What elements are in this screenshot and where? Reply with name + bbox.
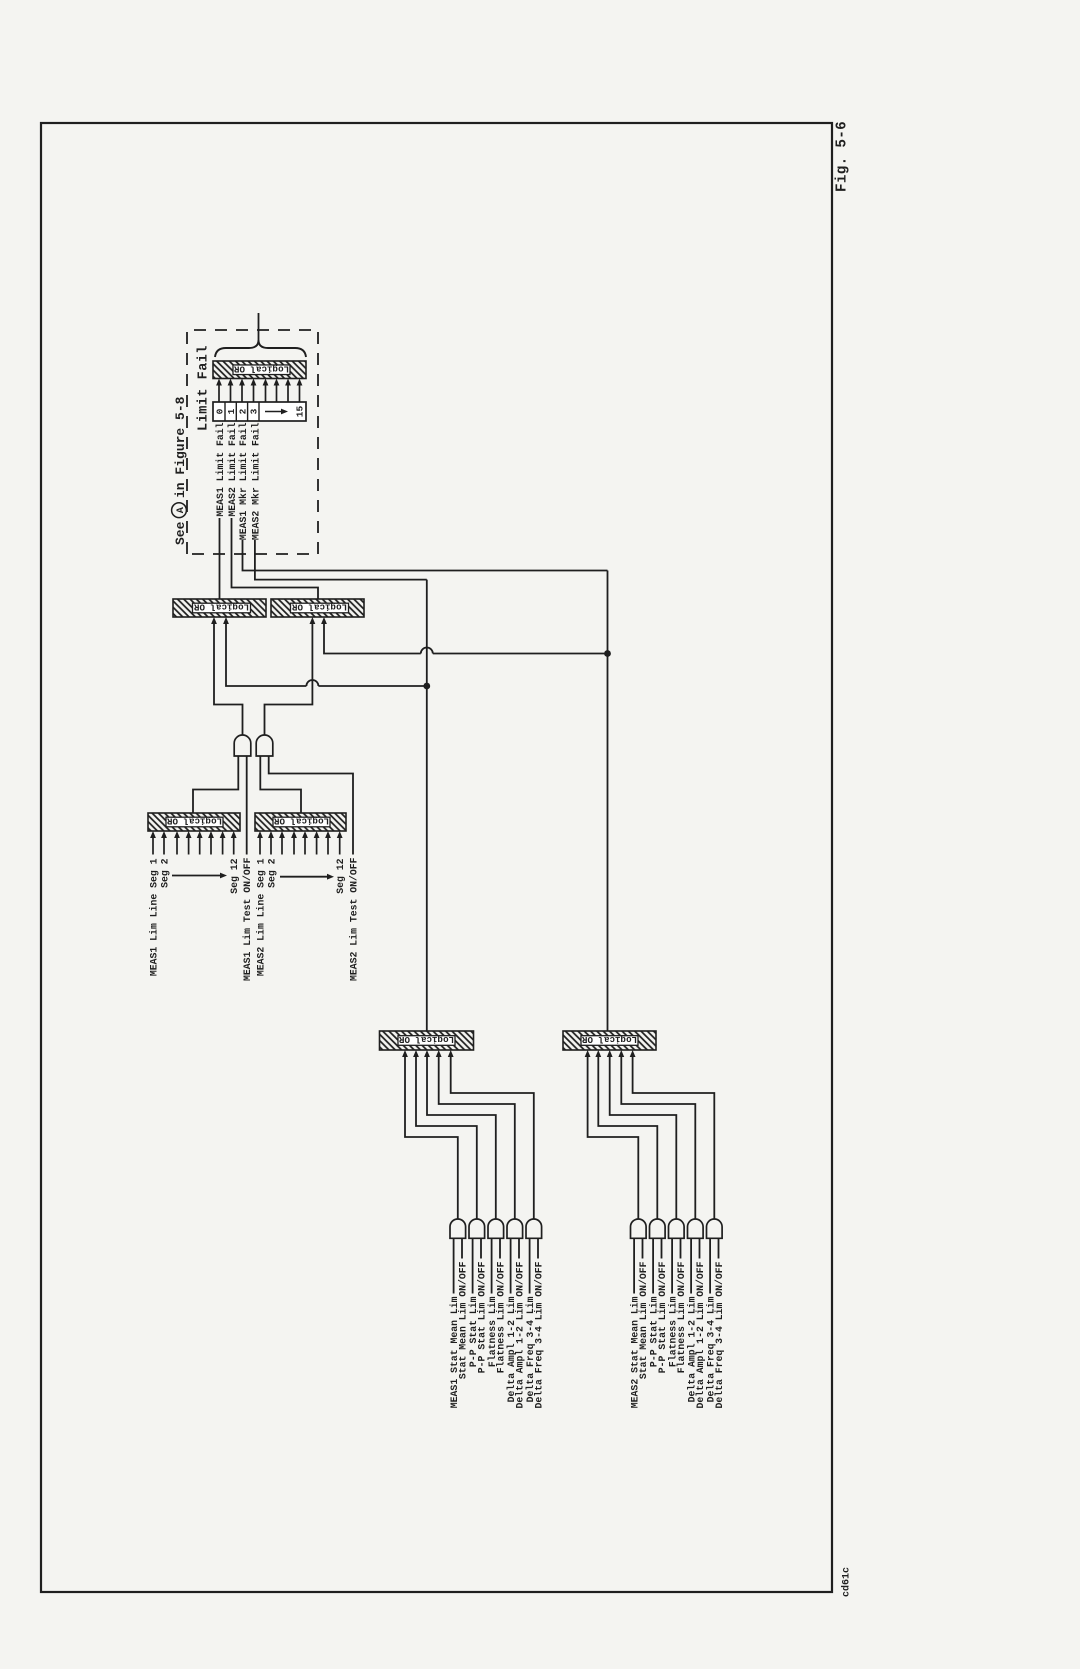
svg-text:1: 1: [226, 408, 237, 414]
dashed box (Limit Fail detail): [187, 330, 318, 554]
svg-text:3: 3: [249, 408, 260, 414]
wire: P-P Stat Lim ON/OFF: [480, 1238, 482, 1258]
svg-text:Stat Mean Lim ON/OFF: Stat Mean Lim ON/OFF: [638, 1261, 649, 1379]
wire: U6 gate 2 output staircase: [416, 1057, 477, 1219]
wire: U7 gate 2 output staircase: [598, 1057, 657, 1219]
svg-text:Stat Mean Lim ON/OFF: Stat Mean Lim ON/OFF: [458, 1261, 469, 1379]
wire: U7 gate 5 output staircase: [633, 1057, 715, 1219]
wire: Delta Ampl 1-2 Lim ON/OFF: [518, 1238, 520, 1258]
wire: Delta Freq 3-4 Lim: [529, 1238, 531, 1293]
OR block U2 (MEAS2 Lim Line segs): [255, 813, 346, 831]
wire: Flatness Lim ON/OFF: [499, 1238, 501, 1258]
wire: U7 gate 1 output staircase: [588, 1057, 639, 1219]
register 0..15 (Limit Fail bits): [213, 402, 306, 421]
svg-text:MEAS2 Limit Fail: MEAS2 Limit Fail: [227, 422, 238, 516]
svg-text:P-P Stat Lim ON/OFF: P-P Stat Lim ON/OFF: [657, 1261, 668, 1373]
node: junction to U3 input: [423, 683, 430, 690]
wire: Flatness Lim ON/OFF: [680, 1238, 682, 1258]
wire: MEAS1 Stat Mean Lim: [453, 1238, 455, 1293]
svg-text:P-P Stat Lim ON/OFF: P-P Stat Lim ON/OFF: [477, 1261, 488, 1373]
wire: U6 gate 3 output staircase: [427, 1057, 496, 1219]
wire: Delta Freq 3-4 Lim ON/OFF: [537, 1238, 539, 1258]
svg-text:A: A: [176, 506, 187, 513]
svg-text:Seg 2: Seg 2: [267, 858, 278, 888]
svg-text:0: 0: [215, 408, 226, 414]
svg-text:Seg 12: Seg 12: [229, 858, 240, 893]
OR block U1 (MEAS1 Lim Line segs): [148, 813, 240, 831]
wire: branch to U3 input (with hop): [318, 685, 426, 687]
wire: P-P Stat Lim ON/OFF: [661, 1238, 663, 1258]
OR block U3 (MEAS1 Limit Fail): [173, 599, 266, 617]
wire: G2 output to U4: [265, 623, 313, 735]
wire: Flatness Lim: [491, 1238, 493, 1293]
svg-text:MEAS1 Lim Test ON/OFF: MEAS1 Lim Test ON/OFF: [242, 857, 253, 981]
svg-text:Delta Ampl 1-2 Lim ON/OFF: Delta Ampl 1-2 Lim ON/OFF: [515, 1261, 526, 1408]
8 seg input arrows U2: [257, 831, 343, 855]
wire: Stat Mean Lim ON/OFF: [642, 1238, 644, 1258]
wire: G1 output to U3: [214, 623, 243, 735]
wire: MEAS1 Lim Test ON/OFF to G1: [246, 756, 248, 855]
AND gate U6-5: [526, 1219, 542, 1238]
svg-text:Logical OR: Logical OR: [233, 363, 289, 374]
wire: U6 gate 4 output staircase: [439, 1057, 515, 1219]
svg-text:Delta Freq 3-4 Lim ON/OFF: Delta Freq 3-4 Lim ON/OFF: [714, 1261, 725, 1408]
svg-text:Logical OR: Logical OR: [291, 602, 347, 613]
wire: Delta Freq 3-4 Lim: [709, 1238, 711, 1293]
wire: MEAS1 Mkr Limit Fail from U7 out: [243, 540, 608, 571]
wire: Delta Freq 3-4 Lim ON/OFF: [718, 1238, 720, 1258]
AND gate G2 (MEAS2 limit test enable): [256, 735, 273, 756]
svg-text:Limit Fail: Limit Fail: [197, 345, 212, 431]
wire: Delta Ampl 1-2 Lim: [510, 1238, 512, 1293]
svg-text:Delta Freq 3-4 Lim ON/OFF: Delta Freq 3-4 Lim ON/OFF: [534, 1261, 545, 1408]
wire: Limit Fail output: [258, 313, 260, 340]
wire: MEAS2 Mkr Limit Fail from U6 out: [255, 540, 427, 580]
svg-text:Delta Ampl 1-2 Lim ON/OFF: Delta Ampl 1-2 Lim ON/OFF: [695, 1261, 706, 1408]
svg-text:See: See: [173, 521, 188, 545]
OR block U6 (MEAS1 limits): [380, 1031, 474, 1050]
svg-text:Logical OR: Logical OR: [273, 816, 329, 827]
AND gate U7-4: [688, 1219, 704, 1238]
node: junction to U4 input: [604, 650, 611, 657]
continuation arrow U1: [172, 875, 220, 877]
AND gate U7-5: [707, 1219, 723, 1238]
wire: MEAS1 Limit Fail (U3 out to bit 0): [219, 518, 221, 599]
AND gate U7-1: [631, 1219, 647, 1238]
wire: Flatness Lim: [671, 1238, 673, 1293]
wire: Delta Ampl 1-2 Lim: [690, 1238, 692, 1293]
svg-text:Flatness Lim ON/OFF: Flatness Lim ON/OFF: [496, 1261, 507, 1373]
svg-text:Logical OR: Logical OR: [166, 816, 222, 827]
svg-text:cd61c: cd61c: [841, 1567, 853, 1597]
svg-text:MEAS1 Lim Line Seg 1: MEAS1 Lim Line Seg 1: [149, 858, 160, 976]
border frame: [41, 123, 832, 1592]
wire: Stat Mean Lim ON/OFF: [461, 1238, 463, 1258]
continuation arrow U2: [280, 876, 327, 878]
svg-text:Logical OR: Logical OR: [193, 602, 249, 613]
OR block U7 (MEAS2 limits): [563, 1031, 656, 1050]
svg-text:Fig. 5-6: Fig. 5-6: [835, 121, 851, 192]
wire: U6 gate 1 output staircase: [405, 1057, 458, 1219]
wire: MEAS2 Limit Fail (U4 out to bit 1): [232, 518, 319, 599]
svg-text:MEAS2 Lim Line Seg 1: MEAS2 Lim Line Seg 1: [256, 858, 267, 976]
AND gate U6-2: [469, 1219, 485, 1238]
wire: Delta Ampl 1-2 Lim ON/OFF: [699, 1238, 701, 1258]
svg-text:Logical OR: Logical OR: [581, 1034, 637, 1045]
AND gate G1 (MEAS1 limit test enable): [234, 735, 251, 756]
AND gate U6-1: [450, 1219, 466, 1238]
wire: branch to U4 input (with hop): [433, 653, 608, 655]
AND gate U7-2: [650, 1219, 666, 1238]
AND gate U6-3: [488, 1219, 504, 1238]
op-amp-style OR block U5 (Logical OR, output stage): [213, 361, 306, 379]
AND gate U6-4: [507, 1219, 523, 1238]
svg-text:Seg 12: Seg 12: [335, 858, 346, 893]
svg-text:Seg 2: Seg 2: [160, 858, 171, 888]
brace to output: [215, 340, 306, 357]
wire: MEAS2 Lim Test ON/OFF to G2: [269, 756, 353, 855]
wire: P-P Stat Lim: [652, 1238, 654, 1293]
note: See A in Figure 5-8: [172, 396, 188, 545]
svg-text:2: 2: [237, 408, 248, 414]
wire: U7 output bus: [607, 571, 609, 1032]
wire: MEAS2 Stat Mean Lim: [633, 1238, 635, 1293]
svg-text:15: 15: [295, 406, 306, 418]
wire: U6 gate 5 output staircase: [451, 1057, 534, 1219]
svg-text:MEAS2 Lim Test ON/OFF: MEAS2 Lim Test ON/OFF: [349, 857, 360, 981]
wire: U7 gate 3 output staircase: [610, 1057, 677, 1219]
svg-text:MEAS2 Mkr Limit Fail: MEAS2 Mkr Limit Fail: [250, 422, 261, 540]
svg-text:Flatness Lim ON/OFF: Flatness Lim ON/OFF: [676, 1261, 687, 1373]
wire: U1 output to G1 input: [193, 756, 238, 813]
svg-text:in Figure 5-8: in Figure 5-8: [173, 396, 188, 498]
8 arrows register to OR: [216, 379, 302, 403]
wire: U2 output to G2 input: [260, 756, 301, 813]
AND gate U7-3: [669, 1219, 685, 1238]
wire: U6 output bus: [426, 580, 428, 1031]
svg-text:MEAS1 Mkr Limit Fail: MEAS1 Mkr Limit Fail: [238, 422, 249, 540]
svg-text:Logical OR: Logical OR: [398, 1034, 454, 1045]
svg-text:MEAS1 Limit Fail: MEAS1 Limit Fail: [215, 422, 226, 516]
OR block U4 (MEAS2 Limit Fail): [271, 599, 364, 617]
8 seg input arrows U1: [150, 831, 237, 855]
wire: U7 gate 4 output staircase: [621, 1057, 695, 1219]
wire: P-P Stat Lim: [472, 1238, 474, 1293]
